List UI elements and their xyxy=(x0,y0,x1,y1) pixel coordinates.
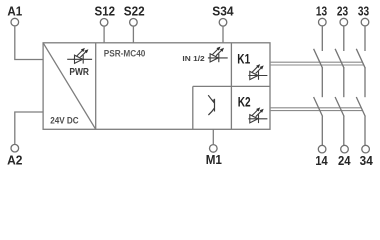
svg-text:24V DC: 24V DC xyxy=(50,116,78,127)
node 33 xyxy=(358,3,369,26)
wire S22 xyxy=(132,26,134,43)
svg-text:S12: S12 xyxy=(95,4,116,19)
wire A1 to power supply xyxy=(15,26,43,60)
node A2 xyxy=(7,144,22,167)
mechanical link K2 to contacts xyxy=(270,108,363,111)
svg-text:13: 13 xyxy=(316,3,327,18)
svg-text:PSR-MC40: PSR-MC40 xyxy=(104,47,146,58)
LED PWR xyxy=(73,48,92,64)
main device box xyxy=(43,43,270,130)
node A1 xyxy=(7,4,22,26)
node M1 xyxy=(206,145,222,168)
LED IN xyxy=(209,47,228,63)
power supply unit xyxy=(43,43,96,130)
node 23 xyxy=(337,3,348,26)
svg-text:33: 33 xyxy=(358,3,369,18)
wire M1 xyxy=(212,129,214,144)
contact chain 13-14 xyxy=(314,26,323,145)
node 13 xyxy=(316,3,327,26)
svg-text:IN 1/2: IN 1/2 xyxy=(182,54,204,63)
contact chain 33-34 xyxy=(356,26,365,145)
wire S34 xyxy=(222,26,224,43)
node 34 xyxy=(360,145,374,168)
svg-text:K2: K2 xyxy=(238,94,251,109)
node S34 xyxy=(212,4,234,27)
wire S12 xyxy=(103,26,105,43)
LED K2 xyxy=(248,107,267,123)
node S22 xyxy=(124,4,145,27)
svg-text:S22: S22 xyxy=(124,4,145,19)
svg-text:S34: S34 xyxy=(212,4,234,19)
mechanical link K1 to contacts xyxy=(270,62,364,65)
svg-text:M1: M1 xyxy=(206,152,222,167)
relay K1 box xyxy=(231,43,270,130)
contact chain 23-24 xyxy=(335,26,344,145)
svg-text:34: 34 xyxy=(360,153,374,168)
svg-text:PWR: PWR xyxy=(69,67,89,78)
svg-text:K1: K1 xyxy=(237,51,250,66)
svg-text:A1: A1 xyxy=(7,4,22,19)
wire A2 to power supply xyxy=(15,112,43,144)
semiconductor output box M1 xyxy=(193,86,232,129)
node 24 xyxy=(338,145,351,168)
svg-text:14: 14 xyxy=(315,153,328,168)
svg-text:24: 24 xyxy=(338,153,351,168)
transistor M1 output symbol xyxy=(208,95,214,115)
svg-text:A2: A2 xyxy=(7,153,22,168)
svg-text:23: 23 xyxy=(337,3,348,18)
LED K1 xyxy=(248,64,267,80)
node S12 xyxy=(95,4,116,27)
node 14 xyxy=(315,145,328,168)
